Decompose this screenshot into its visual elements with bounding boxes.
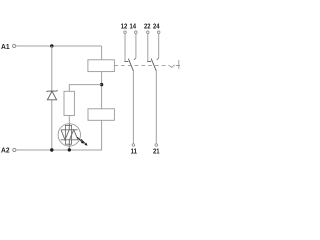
wire contact 22 xyxy=(147,34,149,61)
contact 22 NC tick xyxy=(147,60,151,62)
wire A2 horizontal xyxy=(16,120,102,150)
svg-text:A2: A2 xyxy=(1,146,10,155)
LED indicator circle xyxy=(58,124,80,146)
node junction coil/resistor branch xyxy=(100,83,103,86)
contact 12 NC tick xyxy=(124,60,128,62)
wire contact 21 xyxy=(155,71,157,144)
terminal 12 circle xyxy=(124,31,127,34)
wire contact 14 xyxy=(135,34,137,58)
wire contact 24 xyxy=(158,34,160,58)
terminal 14 circle xyxy=(135,31,138,34)
svg-text:12: 12 xyxy=(121,22,128,31)
contact 24 tick xyxy=(157,58,159,60)
terminal 24 circle xyxy=(157,31,160,34)
node junction A2/LED xyxy=(68,148,71,151)
terminal 22 circle xyxy=(147,31,150,34)
LED internal series resistor box xyxy=(65,126,71,145)
wire coil to lower box xyxy=(101,72,103,109)
contact armature 21 xyxy=(151,59,156,71)
wire contact 12 xyxy=(124,34,126,61)
node junction A1/zener xyxy=(50,44,53,47)
relay coil box lower xyxy=(88,109,114,121)
svg-text:21: 21 xyxy=(153,147,160,156)
svg-text:24: 24 xyxy=(153,22,160,31)
contact 14 tick xyxy=(134,58,136,60)
LED emission arrows xyxy=(77,137,87,146)
zener diode D1 xyxy=(47,90,58,100)
svg-text:22: 22 xyxy=(144,22,151,31)
wire resistor to LED xyxy=(68,115,70,123)
svg-text:11: 11 xyxy=(131,147,137,156)
wire resistor branch xyxy=(69,85,101,92)
wire contact 11 xyxy=(132,71,134,144)
node junction A2/zener xyxy=(50,148,53,151)
terminal A1 circle xyxy=(13,44,16,47)
svg-text:A1: A1 xyxy=(1,42,10,51)
wire zener branch xyxy=(51,46,53,150)
linkage chevron xyxy=(169,65,175,67)
mechanical linkage dashed line xyxy=(114,64,168,66)
contact armature 11 xyxy=(128,59,133,71)
linkage end cross symbol xyxy=(176,60,180,69)
resistor R1 xyxy=(64,91,74,115)
terminal A2 circle xyxy=(13,148,16,151)
terminal 21 circle xyxy=(155,144,158,147)
svg-text:14: 14 xyxy=(130,22,137,31)
relay coil box upper xyxy=(88,60,115,72)
terminal 11 circle xyxy=(132,144,135,147)
wire A1 corner down to coil xyxy=(101,46,103,60)
LED internal anti-parallel diodes xyxy=(61,124,79,150)
wire A1 horizontal xyxy=(16,45,102,47)
